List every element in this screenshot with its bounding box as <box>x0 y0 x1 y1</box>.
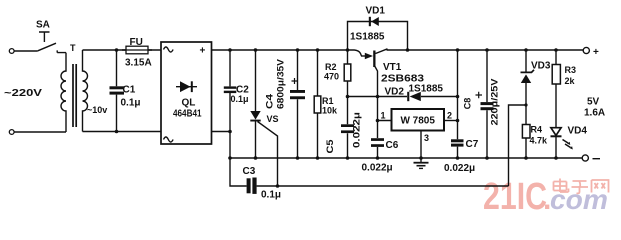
terminal top-left <box>9 49 14 54</box>
top rail wire <box>212 49 355 51</box>
svg-text:3: 3 <box>424 133 429 143</box>
ground <box>414 158 429 168</box>
resistor R2 <box>324 50 351 97</box>
svg-text:C6: C6 <box>386 140 399 151</box>
svg-text:4.7k: 4.7k <box>530 136 549 146</box>
regulator U1 W7805 <box>392 109 445 131</box>
transistor VT1 <box>355 49 425 97</box>
transformer T primary <box>61 53 66 132</box>
svg-text:10k: 10k <box>322 106 338 116</box>
output terminal + <box>583 47 589 53</box>
diode VD1 <box>346 6 410 52</box>
svg-text:FU: FU <box>130 37 143 48</box>
svg-text:220μ/25V: 220μ/25V <box>490 79 500 126</box>
svg-text:C8: C8 <box>463 98 473 110</box>
svg-text:0.1μ: 0.1μ <box>121 98 141 109</box>
wire gate link <box>509 105 527 186</box>
svg-text:C7: C7 <box>466 139 479 150</box>
svg-text:0.022μ: 0.022μ <box>352 112 362 148</box>
svg-text:+: + <box>200 46 206 57</box>
svg-text:VT1: VT1 <box>383 62 402 73</box>
ground rail wire <box>230 157 582 159</box>
capacitor C8 <box>463 48 500 160</box>
svg-text:VD2: VD2 <box>385 87 405 98</box>
svg-text:1.6A: 1.6A <box>584 108 605 119</box>
svg-text:~220V: ~220V <box>4 88 42 99</box>
capacitor C5 <box>325 97 362 160</box>
resistor R4 <box>522 125 548 160</box>
子 <box>572 181 589 193</box>
svg-text:0.022μ: 0.022μ <box>444 163 475 174</box>
switch SA <box>38 32 66 53</box>
svg-text:21IC: 21IC <box>483 176 547 218</box>
wire secondary bottom <box>83 131 162 133</box>
svg-text:R2: R2 <box>325 62 337 72</box>
capacitor C1 <box>110 48 141 133</box>
wire pin1 <box>378 97 392 121</box>
wire right vertical node <box>457 50 459 121</box>
svg-text:SA: SA <box>36 20 50 31</box>
svg-text:R4: R4 <box>531 125 543 135</box>
svg-text:0.1μ: 0.1μ <box>261 190 281 201</box>
svg-text:0.1μ: 0.1μ <box>231 94 249 104</box>
svg-text:0.022μ: 0.022μ <box>362 163 393 174</box>
zener VD3 <box>521 48 551 124</box>
output terminal - <box>582 155 588 161</box>
node wire base/VD2 <box>348 96 408 98</box>
svg-text:1S1885: 1S1885 <box>409 84 444 95</box>
top rail wire right <box>387 49 584 51</box>
wire secondary top <box>83 49 162 51</box>
svg-text:3.15A: 3.15A <box>125 58 152 69</box>
svg-text:C3: C3 <box>243 166 256 177</box>
svg-text:2: 2 <box>447 111 452 121</box>
svg-text:+: + <box>593 47 599 58</box>
resistor R3 <box>552 48 576 127</box>
diode VD2 <box>385 84 444 102</box>
transformer core <box>73 64 76 127</box>
svg-text:C1: C1 <box>123 85 136 96</box>
transformer T secondary <box>83 50 88 132</box>
wire pin2 <box>444 120 458 122</box>
svg-text:1: 1 <box>381 111 386 121</box>
svg-text:T: T <box>70 43 76 53</box>
svg-text:VD3: VD3 <box>531 61 551 72</box>
svg-text:VD4: VD4 <box>568 126 588 137</box>
capacitor C4 <box>265 48 306 160</box>
svg-text:QL: QL <box>182 98 196 109</box>
电 <box>554 179 569 193</box>
wire bridge minus <box>212 131 231 133</box>
LED VD4 <box>551 126 588 160</box>
wire <box>14 131 66 133</box>
svg-text:~10v: ~10v <box>87 105 107 115</box>
capacitor C7 <box>444 121 479 175</box>
capacitor C2 <box>224 48 249 160</box>
wire pin3 <box>420 131 422 159</box>
fuse FU 3.15A <box>122 37 152 69</box>
网 <box>592 180 609 193</box>
bridge rectifier QL 464B41 <box>161 42 212 144</box>
svg-text:470: 470 <box>324 72 339 82</box>
svg-text:W 7805: W 7805 <box>400 116 435 127</box>
svg-text:VD1: VD1 <box>366 6 386 17</box>
wire <box>14 50 38 52</box>
svg-text:5V: 5V <box>587 97 600 108</box>
watermark 21IC.COM 电子网 <box>483 176 609 218</box>
svg-text:R3: R3 <box>565 65 577 75</box>
svg-text:2k: 2k <box>565 76 576 86</box>
svg-text:C5: C5 <box>325 140 335 154</box>
svg-text:C4: C4 <box>265 94 275 109</box>
capacitor C3 + lower branch <box>230 158 509 201</box>
thyristor VS <box>250 48 278 186</box>
svg-text:R1: R1 <box>322 96 334 106</box>
capacitor C6 <box>362 121 399 174</box>
svg-text:464B41: 464B41 <box>173 109 202 120</box>
resistor R1 <box>314 48 338 160</box>
terminal bottom-left <box>9 130 14 135</box>
svg-text:1S1885: 1S1885 <box>350 32 385 43</box>
svg-text:6800μ/35V: 6800μ/35V <box>276 59 286 109</box>
svg-text:VS: VS <box>267 114 279 124</box>
